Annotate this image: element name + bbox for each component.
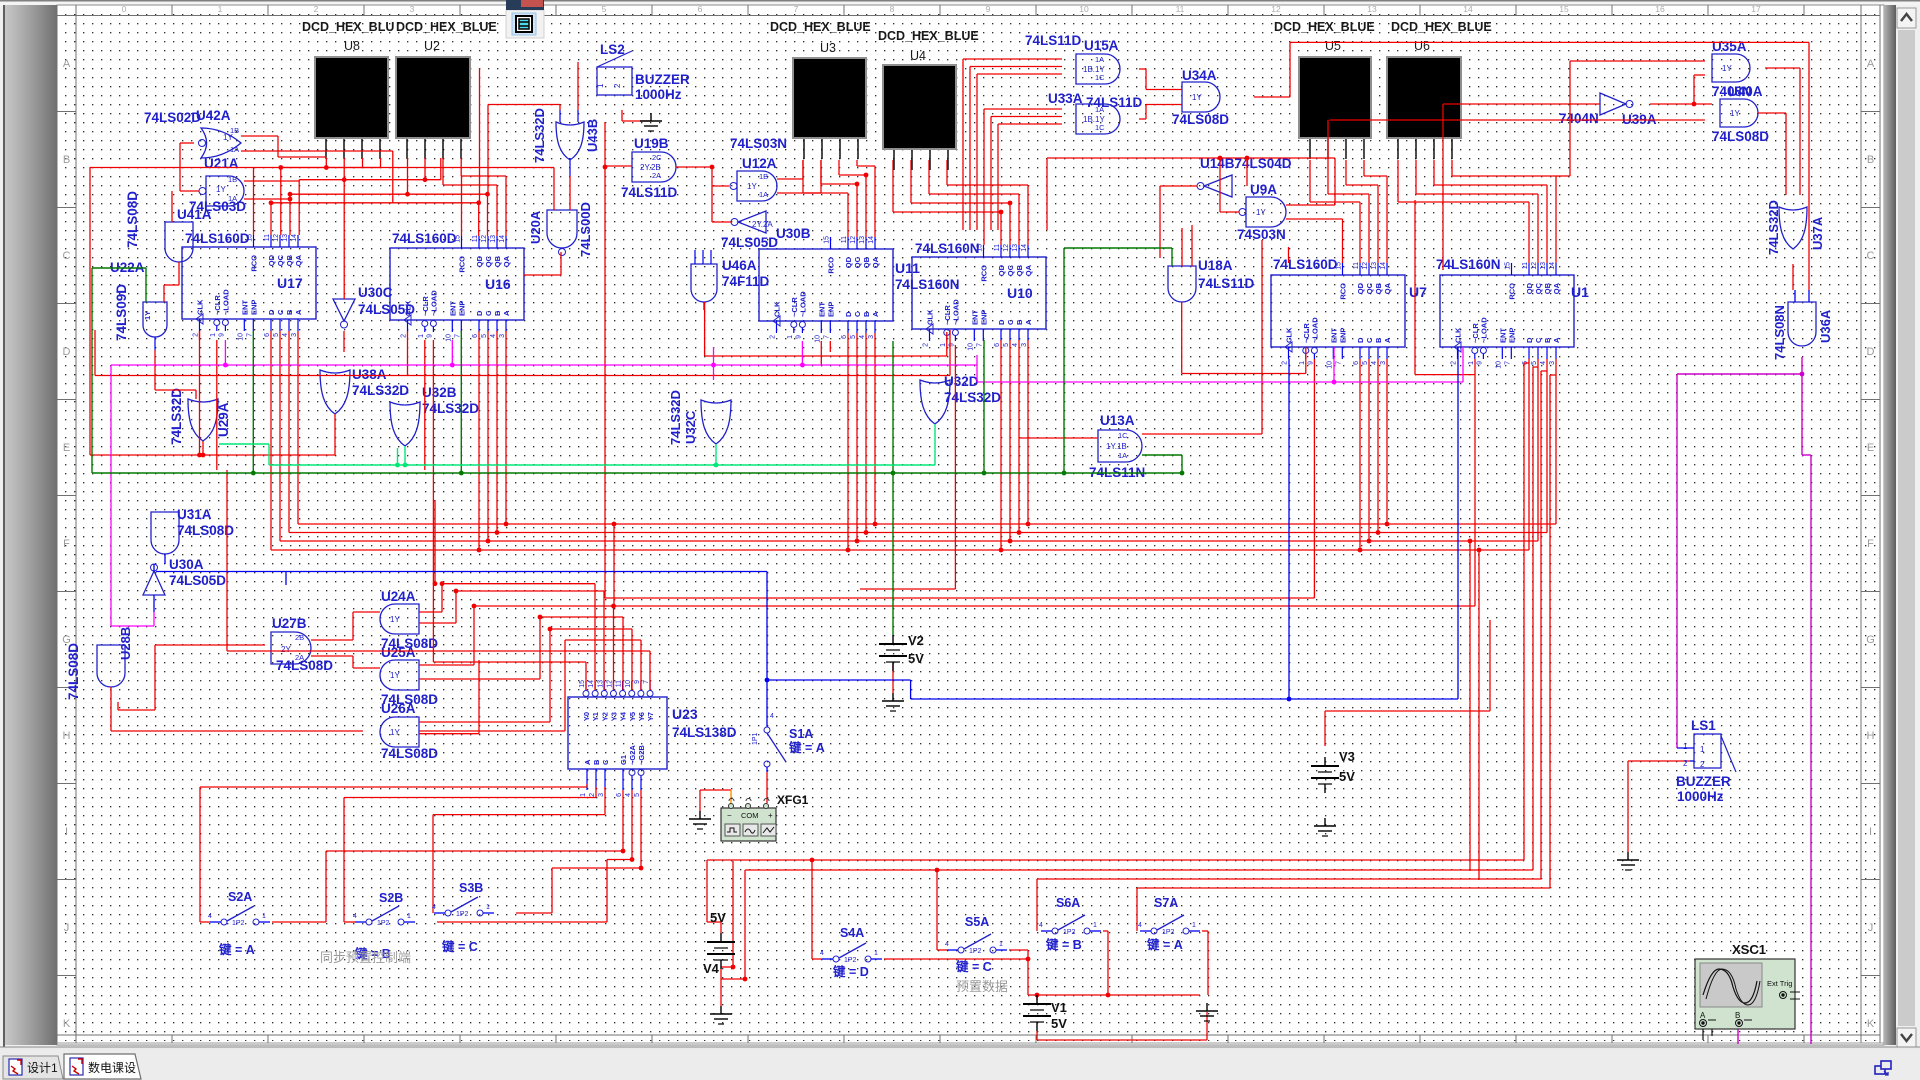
- svg-text:74LS08D: 74LS08D: [276, 658, 333, 673]
- svg-text:13: 13: [1367, 4, 1377, 14]
- svg-text:QB: QB: [1374, 282, 1383, 294]
- svg-text:1000Hz: 1000Hz: [635, 87, 682, 102]
- counter chip 74LS160N: [759, 249, 893, 321]
- svg-text:Ext Trig: Ext Trig: [1767, 979, 1792, 988]
- svg-text:7404N: 7404N: [1559, 111, 1599, 126]
- svg-text:2Y.2A: 2Y.2A: [752, 220, 773, 229]
- svg-text:U18A: U18A: [1198, 258, 1233, 273]
- svg-text:11: 11: [264, 234, 271, 241]
- svg-text:1: 1: [940, 343, 947, 347]
- svg-text:ENP: ENP: [457, 301, 466, 316]
- svg-text:U43B: U43B: [585, 119, 600, 152]
- svg-text:J: J: [64, 922, 70, 934]
- svg-text:D: D: [475, 310, 484, 316]
- svg-text:QD: QD: [1525, 282, 1534, 294]
- svg-text:U3: U3: [820, 41, 836, 55]
- svg-text:1A: 1A: [1095, 105, 1104, 114]
- floating window fragment: [506, 10, 544, 38]
- svg-text:74LS160N: 74LS160N: [1436, 257, 1501, 272]
- svg-text:ENP: ENP: [979, 310, 988, 325]
- svg-text:7: 7: [1335, 361, 1342, 365]
- svg-text:1: 1: [407, 913, 411, 920]
- svg-text:1: 1: [486, 904, 490, 911]
- svg-text:10: 10: [1079, 4, 1089, 14]
- svg-text:Y0: Y0: [582, 712, 591, 721]
- svg-text:10: 10: [1495, 361, 1502, 369]
- svg-text:11: 11: [1522, 262, 1529, 269]
- svg-text:2B: 2B: [295, 633, 304, 642]
- svg-text:V2: V2: [908, 633, 924, 648]
- svg-text:S6A: S6A: [1056, 896, 1080, 910]
- svg-text:CLK: CLK: [926, 309, 935, 325]
- svg-text:9: 9: [795, 335, 802, 339]
- svg-text:B: B: [862, 311, 871, 317]
- svg-text:7: 7: [976, 343, 983, 347]
- counter chip 74LS160D: [1271, 275, 1405, 347]
- svg-text:9: 9: [986, 4, 991, 14]
- svg-text:键 = B: 键 = B: [1045, 937, 1082, 952]
- svg-text:CLK: CLK: [773, 301, 782, 317]
- right scrollbar: [1884, 5, 1898, 1045]
- svg-text:S2A: S2A: [228, 890, 252, 904]
- svg-text:1A: 1A: [1095, 55, 1104, 64]
- svg-text:数电课设: 数电课设: [88, 1060, 136, 1075]
- switch S7A: [1151, 928, 1157, 934]
- svg-text:5: 5: [1003, 343, 1010, 347]
- svg-text:74LS08D: 74LS08D: [177, 523, 234, 538]
- svg-text:2: 2: [613, 83, 622, 88]
- svg-text:3: 3: [1021, 343, 1028, 347]
- svg-text:QC: QC: [1534, 282, 1543, 294]
- svg-text:QD: QD: [1356, 282, 1365, 294]
- svg-text:74LS160D: 74LS160D: [1273, 257, 1338, 272]
- svg-text:LS1: LS1: [1691, 718, 1716, 733]
- svg-text:1000Hz: 1000Hz: [1677, 789, 1724, 804]
- battery V2: [892, 635, 894, 644]
- svg-text:1: 1: [874, 950, 878, 957]
- svg-text:6: 6: [472, 334, 479, 338]
- svg-text:U30C: U30C: [358, 285, 393, 300]
- svg-text:B: B: [1867, 154, 1874, 166]
- svg-text:10: 10: [814, 335, 821, 343]
- svg-text:U21A: U21A: [204, 156, 239, 171]
- svg-text:15: 15: [1505, 262, 1512, 270]
- svg-text:A: A: [1024, 319, 1033, 325]
- svg-text:2A: 2A: [652, 171, 661, 180]
- svg-text:1: 1: [580, 793, 587, 797]
- svg-text:1Y: 1Y: [1256, 208, 1266, 217]
- svg-text:7: 7: [1504, 361, 1511, 365]
- svg-text:A: A: [1383, 337, 1392, 343]
- svg-text:1A: 1A: [230, 145, 239, 154]
- svg-text:4: 4: [859, 335, 866, 339]
- svg-text:2C: 2C: [652, 153, 662, 162]
- svg-text:C: C: [853, 311, 862, 317]
- svg-text:U36A: U36A: [1818, 309, 1833, 343]
- svg-text:Y1: Y1: [591, 712, 600, 721]
- svg-text:6: 6: [994, 343, 1001, 347]
- svg-text:U11: U11: [895, 260, 920, 276]
- svg-text:E: E: [63, 442, 70, 454]
- svg-text:11: 11: [1353, 262, 1360, 269]
- switch S6A: [1052, 928, 1058, 934]
- svg-text:4: 4: [208, 913, 212, 920]
- magenta preset wires: [111, 364, 977, 366]
- svg-text:U41A: U41A: [177, 207, 212, 222]
- svg-text:2: 2: [1282, 361, 1289, 365]
- svg-text:1Y: 1Y: [1722, 64, 1732, 73]
- svg-text:U24A: U24A: [381, 589, 416, 604]
- svg-text:14: 14: [868, 236, 875, 244]
- svg-text:1Y: 1Y: [390, 728, 400, 737]
- svg-text:14: 14: [291, 234, 298, 242]
- switch S4A: [833, 956, 839, 962]
- svg-text:15: 15: [977, 244, 984, 252]
- svg-text:13: 13: [859, 236, 866, 244]
- svg-text:5V: 5V: [1339, 769, 1355, 784]
- svg-text:V1: V1: [1051, 1000, 1067, 1015]
- svg-text:4: 4: [770, 713, 774, 720]
- dark green enable wires: [91, 268, 93, 473]
- svg-text:10: 10: [445, 334, 452, 342]
- svg-text:键 = D: 键 = D: [832, 964, 869, 979]
- tab 数电课设: [64, 1054, 141, 1079]
- svg-text:74LS32D: 74LS32D: [422, 401, 479, 416]
- svg-text:74LS08D: 74LS08D: [381, 746, 438, 761]
- svg-text:QA: QA: [502, 255, 511, 267]
- svg-text:1B: 1B: [228, 175, 237, 184]
- svg-text:2: 2: [923, 343, 930, 347]
- svg-text:8: 8: [890, 4, 895, 14]
- svg-text:C: C: [1534, 337, 1543, 343]
- svg-text:12: 12: [850, 236, 857, 244]
- svg-text:4: 4: [1540, 361, 1547, 365]
- svg-text:74LS32D: 74LS32D: [668, 390, 683, 445]
- svg-text:6: 6: [264, 333, 271, 337]
- sheet border column numbers: [75, 5, 77, 16]
- svg-text:U37A: U37A: [1810, 216, 1825, 250]
- svg-text:10: 10: [967, 343, 974, 351]
- svg-text:74LS08D: 74LS08D: [66, 643, 81, 700]
- svg-text:QD: QD: [997, 264, 1006, 276]
- gate U43B 74LS32D (vertical OR): [559, 110, 561, 122]
- svg-text:1: 1: [1683, 742, 1688, 751]
- svg-text:1P2: 1P2: [456, 911, 469, 918]
- svg-text:7: 7: [823, 335, 830, 339]
- svg-text:C: C: [276, 309, 285, 315]
- svg-text:QA: QA: [1552, 282, 1561, 294]
- svg-text:QB: QB: [862, 256, 871, 268]
- svg-text:RCO: RCO: [827, 257, 836, 274]
- svg-text:U10: U10: [1007, 285, 1033, 301]
- svg-text:键 = A: 键 = A: [1146, 937, 1183, 952]
- svg-text:LS2: LS2: [600, 42, 625, 57]
- svg-text:74LS160D: 74LS160D: [392, 231, 457, 246]
- svg-text:1: 1: [262, 913, 266, 920]
- svg-text:Y4: Y4: [619, 711, 628, 721]
- svg-text:5: 5: [1362, 361, 1369, 365]
- svg-text:QC: QC: [1365, 282, 1374, 294]
- battery: [720, 933, 722, 942]
- svg-text:74LS11D: 74LS11D: [1198, 276, 1255, 291]
- svg-text:74LS05D: 74LS05D: [169, 573, 226, 588]
- svg-text:ENP: ENP: [826, 302, 835, 317]
- svg-text:13: 13: [1371, 262, 1378, 270]
- svg-text:U19B: U19B: [634, 136, 669, 151]
- svg-text:−: −: [727, 811, 732, 820]
- svg-text:C: C: [63, 250, 71, 262]
- svg-text:QA: QA: [1383, 282, 1392, 294]
- svg-text:RCO: RCO: [980, 265, 989, 282]
- svg-text:15: 15: [824, 236, 831, 244]
- svg-text:6: 6: [841, 335, 848, 339]
- svg-text:14: 14: [1549, 262, 1556, 270]
- svg-text:U30A: U30A: [169, 557, 204, 572]
- svg-text:11: 11: [472, 235, 479, 242]
- 7-seg display U3: [792, 57, 867, 139]
- svg-text:12: 12: [481, 235, 488, 243]
- svg-text:B: B: [1374, 337, 1383, 343]
- svg-text:1A: 1A: [1118, 451, 1127, 460]
- tab 设计1: [3, 1056, 63, 1079]
- svg-text:1Y.1B: 1Y.1B: [1106, 442, 1127, 451]
- svg-text:1: 1: [218, 4, 223, 14]
- svg-text:4: 4: [282, 333, 289, 337]
- svg-text:74LS05D: 74LS05D: [358, 302, 415, 317]
- svg-text:3: 3: [1380, 361, 1387, 365]
- svg-text:U6: U6: [1414, 39, 1430, 53]
- svg-text:74LS32D: 74LS32D: [352, 383, 409, 398]
- svg-text:13: 13: [1540, 262, 1547, 270]
- red data-bus trunks D C B A: [297, 331, 299, 524]
- svg-text:U46A: U46A: [722, 258, 757, 273]
- svg-text:10: 10: [1326, 361, 1333, 369]
- svg-text:DCD_HEX_BLUE: DCD_HEX_BLUE: [1391, 20, 1492, 34]
- svg-text:RCO: RCO: [1508, 283, 1517, 300]
- svg-text:+: +: [768, 811, 773, 820]
- ground: [1324, 818, 1326, 826]
- svg-text:RCO: RCO: [1339, 283, 1348, 300]
- svg-text:1P2: 1P2: [844, 957, 857, 964]
- svg-text:DCD_HEX_BLU: DCD_HEX_BLU: [302, 20, 394, 34]
- svg-text:2: 2: [1451, 361, 1458, 365]
- svg-text:U9A: U9A: [1250, 182, 1277, 197]
- svg-text:5V: 5V: [1051, 1016, 1067, 1031]
- svg-text:Y5: Y5: [628, 712, 637, 721]
- svg-text:ENT: ENT: [1498, 328, 1507, 343]
- svg-text:U32C: U32C: [683, 410, 698, 444]
- svg-text:3: 3: [1549, 361, 1556, 365]
- svg-text:U16: U16: [485, 276, 511, 292]
- svg-text:1P2: 1P2: [1063, 929, 1076, 936]
- counter chip U10 74LS160N: [912, 257, 1046, 329]
- switch S2B: [366, 919, 372, 925]
- svg-text:DCD_HEX_BLUE: DCD_HEX_BLUE: [878, 29, 979, 43]
- svg-text:4: 4: [1138, 922, 1142, 929]
- svg-text:1B: 1B: [230, 126, 239, 135]
- svg-text:13: 13: [490, 235, 497, 243]
- wire ladder U4 to U10: [892, 160, 894, 212]
- svg-text:9: 9: [218, 333, 225, 337]
- svg-text:ENP: ENP: [1507, 328, 1516, 343]
- svg-text:1Y: 1Y: [390, 615, 400, 624]
- battery V1: [1036, 995, 1038, 1004]
- svg-text:XSC1: XSC1: [1732, 942, 1766, 957]
- svg-text:4: 4: [1371, 361, 1378, 365]
- svg-text:U27B: U27B: [272, 616, 307, 631]
- counter chip 74LS160N: [1440, 275, 1574, 347]
- bottom-right window icon: [1871, 1058, 1893, 1078]
- svg-text:XFG1: XFG1: [777, 793, 809, 807]
- svg-text:ENT: ENT: [448, 301, 457, 316]
- red wires mid chips and U23 staircase: [199, 331, 201, 340]
- svg-text:5: 5: [273, 333, 280, 337]
- svg-text:2: 2: [589, 793, 596, 797]
- svg-text:10: 10: [237, 333, 244, 341]
- svg-text:U5: U5: [1325, 39, 1341, 53]
- svg-text:QB: QB: [285, 254, 294, 266]
- svg-text:10: 10: [625, 680, 632, 688]
- svg-text:U38A: U38A: [352, 367, 387, 382]
- svg-text:74LS08D: 74LS08D: [125, 191, 140, 248]
- svg-text:A: A: [1552, 337, 1561, 343]
- svg-text:1: 1: [1700, 745, 1705, 754]
- svg-text:ENT: ENT: [970, 310, 979, 325]
- svg-text:7: 7: [643, 680, 650, 684]
- svg-text:U26A: U26A: [381, 701, 416, 716]
- svg-text:74LS09D: 74LS09D: [114, 284, 129, 341]
- svg-text:2: 2: [1700, 760, 1705, 769]
- svg-text:RCO: RCO: [458, 256, 467, 273]
- svg-text:U17: U17: [277, 275, 303, 291]
- svg-text:9: 9: [634, 680, 641, 684]
- svg-text:D: D: [997, 319, 1006, 325]
- svg-text:A: A: [871, 311, 880, 317]
- svg-text:74LS160N: 74LS160N: [915, 241, 980, 256]
- svg-text:4: 4: [820, 950, 824, 957]
- svg-text:U7: U7: [1409, 284, 1427, 300]
- svg-text:11: 11: [841, 236, 848, 243]
- svg-text:QC: QC: [853, 256, 862, 268]
- svg-text:11: 11: [994, 244, 1001, 251]
- svg-text:B: B: [493, 310, 502, 316]
- svg-text:QC: QC: [1006, 264, 1015, 276]
- svg-text:CLK: CLK: [1285, 327, 1294, 343]
- svg-text:QC: QC: [484, 255, 493, 267]
- svg-text:~G2A: ~G2A: [628, 745, 637, 765]
- svg-text:74LS08D: 74LS08D: [1712, 129, 1769, 144]
- svg-text:S2B: S2B: [379, 891, 403, 905]
- 7-seg display U8: [314, 56, 389, 139]
- svg-text:~LOAD: ~LOAD: [798, 291, 807, 317]
- purple oscilloscope wires: [1801, 357, 1803, 374]
- svg-text:5V: 5V: [908, 651, 924, 666]
- svg-text:6: 6: [616, 793, 623, 797]
- ground: [1627, 852, 1629, 860]
- svg-text:QC: QC: [276, 254, 285, 266]
- svg-text:G: G: [1866, 634, 1875, 646]
- svg-text:A: A: [502, 310, 511, 316]
- svg-text:2: 2: [401, 334, 408, 338]
- top window edge: [0, 0, 1920, 2]
- svg-text:1: 1: [418, 334, 425, 338]
- 7-seg display U4: [882, 64, 957, 150]
- svg-text:5: 5: [602, 4, 607, 14]
- svg-text:ENT: ENT: [1329, 328, 1338, 343]
- svg-text:74LS32D: 74LS32D: [532, 108, 547, 163]
- svg-text:~LOAD: ~LOAD: [221, 289, 230, 315]
- svg-text:74LS160N: 74LS160N: [895, 277, 960, 292]
- svg-text:Y3: Y3: [609, 712, 618, 721]
- switch S1A (vertical): [764, 727, 770, 733]
- svg-text:12: 12: [1003, 244, 1010, 252]
- red wires bottom switch network: [200, 786, 587, 788]
- svg-text:K: K: [1867, 1018, 1875, 1030]
- 7-seg display U5: [1298, 56, 1372, 139]
- svg-text:QA: QA: [294, 254, 303, 266]
- svg-text:14: 14: [499, 235, 506, 243]
- svg-text:F: F: [63, 538, 70, 550]
- svg-text:DCD_HEX_BLUE: DCD_HEX_BLUE: [396, 20, 497, 34]
- svg-text:1C: 1C: [1095, 73, 1105, 82]
- svg-text:5: 5: [1531, 361, 1538, 365]
- svg-text:键 = C: 键 = C: [955, 959, 992, 974]
- svg-text:1: 1: [1468, 361, 1475, 365]
- svg-text:7: 7: [454, 334, 461, 338]
- svg-text:S5A: S5A: [965, 915, 989, 929]
- ground: [1206, 1003, 1208, 1011]
- svg-text:B: B: [1543, 337, 1552, 343]
- svg-text:16: 16: [1655, 4, 1665, 14]
- svg-text:RCO: RCO: [250, 255, 259, 272]
- svg-text:74LS32D: 74LS32D: [944, 390, 1001, 405]
- svg-text:4: 4: [1039, 922, 1043, 929]
- wire ladder U6 to U1: [1397, 160, 1399, 202]
- svg-text:~LOAD: ~LOAD: [1310, 317, 1319, 343]
- svg-text:D: D: [63, 346, 71, 358]
- svg-text:14: 14: [1021, 244, 1028, 252]
- svg-text:4: 4: [353, 913, 357, 920]
- svg-text:1: 1: [1093, 922, 1097, 929]
- svg-text:预置数据: 预置数据: [956, 979, 1008, 994]
- svg-text:B: B: [1735, 1011, 1740, 1020]
- svg-text:BUZZER: BUZZER: [635, 72, 690, 87]
- svg-text:C: C: [601, 759, 610, 765]
- counter chip U17 74LS160D: [182, 247, 316, 319]
- svg-text:74LS08D: 74LS08D: [1172, 112, 1229, 127]
- svg-text:9: 9: [426, 334, 433, 338]
- svg-text:~LOAD: ~LOAD: [429, 290, 438, 316]
- svg-text:~LOAD: ~LOAD: [1479, 317, 1488, 343]
- svg-text:1Y: 1Y: [747, 182, 757, 191]
- sheet border frame: [57, 15, 1880, 17]
- svg-text:12: 12: [1531, 262, 1538, 270]
- svg-text:QB: QB: [493, 255, 502, 267]
- svg-text:5: 5: [850, 335, 857, 339]
- svg-text:7: 7: [246, 333, 253, 337]
- orange wire XFG1: [730, 790, 732, 803]
- svg-text:4: 4: [432, 904, 436, 911]
- svg-text:13: 13: [1012, 244, 1019, 252]
- svg-text:S4A: S4A: [840, 926, 864, 940]
- svg-text:1C: 1C: [1095, 123, 1105, 132]
- svg-text:U25A: U25A: [381, 645, 416, 660]
- svg-text:74LS160D: 74LS160D: [185, 231, 250, 246]
- svg-text:1: 1: [1299, 361, 1306, 365]
- svg-text:F: F: [1867, 538, 1874, 550]
- svg-text:A: A: [1867, 58, 1875, 70]
- svg-text:1P2: 1P2: [969, 948, 982, 955]
